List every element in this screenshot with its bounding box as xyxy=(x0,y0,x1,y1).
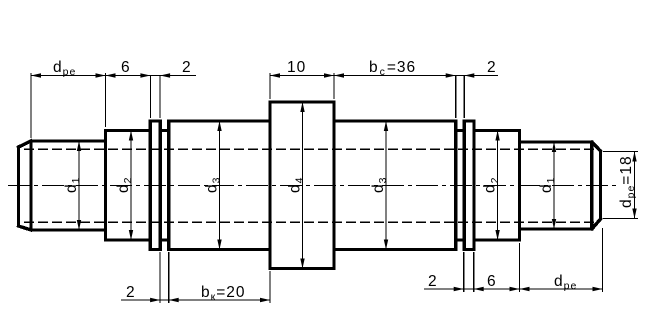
groove left top xyxy=(160,129,169,132)
d2 left bottom edge xyxy=(106,238,151,241)
ext line left chamfer corner xyxy=(30,73,32,138)
hidden line upper (axial hole) xyxy=(24,148,598,150)
d2 right top edge xyxy=(474,129,520,132)
right chamfer bottom xyxy=(592,219,601,229)
d4 right edge xyxy=(332,102,335,269)
ext lines right groove xyxy=(455,76,457,119)
d2 right bottom edge xyxy=(474,238,520,241)
ext line step d1-d2 xyxy=(105,73,107,127)
left chamfer top xyxy=(19,141,32,147)
svg-text:bс=36: bс=36 xyxy=(369,59,416,78)
svg-text:2: 2 xyxy=(182,59,192,76)
right chamfer edge line xyxy=(590,142,593,229)
groove right top xyxy=(456,129,465,132)
ext line right end face xyxy=(602,228,604,292)
hidden line lower (axial hole) xyxy=(24,221,598,223)
ext line top from chamfer corner xyxy=(603,151,638,153)
ring right top edge xyxy=(464,119,474,122)
ext line step d2-d1 right xyxy=(519,243,521,292)
groove left bottom xyxy=(160,238,169,241)
centerline (dash-dot axis) xyxy=(8,185,616,187)
dia dim d2 right xyxy=(497,131,499,241)
svg-text:2: 2 xyxy=(487,59,497,76)
svg-text:10: 10 xyxy=(287,59,306,76)
d4 left edge xyxy=(268,102,271,269)
ext line d4 left edge bottom xyxy=(269,271,271,303)
dia dim d4 xyxy=(302,102,304,269)
left chamfer bottom xyxy=(19,226,32,230)
svg-text:2: 2 xyxy=(126,284,136,301)
right chamfer top xyxy=(592,142,601,151)
d3 left shoulder edge xyxy=(167,121,170,250)
dia dim d2 left xyxy=(130,131,132,241)
d1 right top edge xyxy=(520,140,592,143)
dia dim d1 left xyxy=(78,141,80,230)
ext lines d4 edges xyxy=(269,73,271,99)
d1 left top edge xyxy=(31,139,106,142)
ext lines groove left xyxy=(159,252,161,303)
ring left: left edge xyxy=(149,121,152,250)
left chamfer edge line xyxy=(29,141,32,230)
svg-text:bк=20: bк=20 xyxy=(201,284,246,303)
d3 left bottom edge xyxy=(169,248,270,251)
ring left bottom edge xyxy=(150,248,160,251)
dia dim d3 left xyxy=(219,121,221,250)
dim line 10 xyxy=(270,75,498,77)
d1 right bottom edge xyxy=(520,227,592,230)
dim line dre xyxy=(31,75,196,77)
ring right: right edge xyxy=(472,121,475,250)
d4 top edge xyxy=(270,100,334,103)
d3 right bottom edge xyxy=(334,248,456,251)
dim line chain bottom left xyxy=(121,299,270,301)
ring left: right edge xyxy=(158,121,161,250)
left end face xyxy=(17,147,20,226)
step d1-d2 left xyxy=(104,131,107,241)
d3 left top edge xyxy=(169,119,270,122)
shaft outline profile xyxy=(19,102,601,269)
svg-text:6: 6 xyxy=(121,59,131,76)
dim line chain bottom right xyxy=(424,288,603,290)
dia dim d3 right xyxy=(385,121,387,250)
ext line bottom from chamfer corner xyxy=(603,218,638,220)
right end face xyxy=(599,151,602,219)
d3 right top edge xyxy=(334,119,456,122)
arrows top chain xyxy=(31,73,41,77)
d4 bottom edge xyxy=(270,267,334,270)
dia dim d1 right xyxy=(553,142,555,229)
dim line vertical xyxy=(634,152,636,219)
svg-text:2: 2 xyxy=(428,273,438,290)
groove right bottom xyxy=(456,238,465,241)
svg-text:6: 6 xyxy=(487,273,497,290)
d1 left bottom edge xyxy=(31,228,106,231)
ring left top edge xyxy=(150,119,160,122)
d3 right shoulder edge xyxy=(454,121,457,250)
ring right bottom edge xyxy=(464,248,474,251)
ext line ring left edges xyxy=(149,76,151,119)
d2 left top edge xyxy=(106,129,151,132)
ext lines ring right xyxy=(463,252,465,292)
step d2-d1 right xyxy=(518,131,521,241)
ring right: left edge xyxy=(463,121,466,250)
svg-text:dре=18: dре=18 xyxy=(618,155,637,208)
